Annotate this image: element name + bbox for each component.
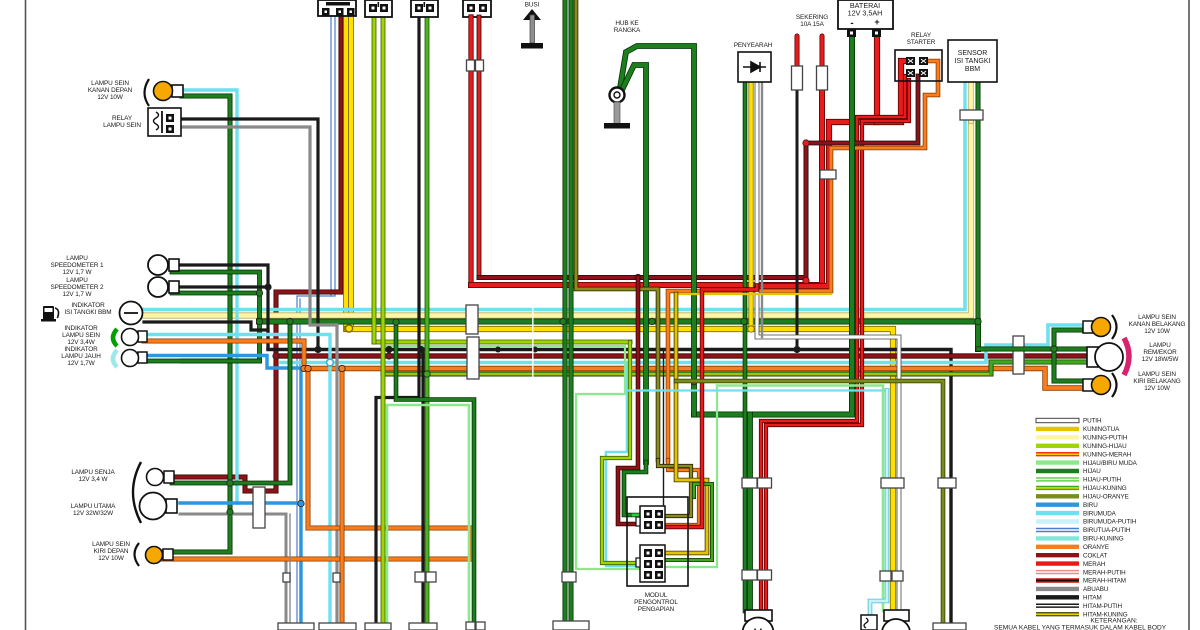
wire hijau long left pair A: [563, 0, 568, 621]
wire birumuda CDI wrap: [606, 363, 640, 567]
bulb lampu sein kanan belakang: [1083, 318, 1111, 337]
legend swatch hijau-kuning: [1036, 486, 1079, 490]
wire hijau baterai negatif: [694, 38, 852, 415]
wire coklat fuse junction to relay: [806, 76, 918, 143]
legend swatch merah-hitam: [1036, 578, 1079, 582]
inline connector abuabu b1: [283, 573, 290, 582]
junction hijau bus at senja: [287, 318, 293, 324]
wire merah relay starter to motor right: [766, 80, 909, 611]
inline connector kuning putih pair 2a: [880, 571, 891, 581]
bus birumuda lower: [281, 325, 1088, 363]
bus kuning-hijau lime: [374, 340, 630, 345]
bulb lampu senja: [147, 469, 175, 486]
legend swatch abuabu: [1036, 587, 1079, 591]
busi spark plug symbol: [521, 9, 543, 49]
junction coklat link: [386, 353, 392, 359]
svg-text:ABUABU: ABUABU: [1083, 586, 1109, 593]
wire hijau to starter motor: [747, 415, 753, 612]
wire oranye drop to bottom connector: [340, 368, 345, 624]
reflector lampu rem ekor: [1124, 338, 1129, 375]
junction biru utama: [298, 500, 304, 506]
bus merah-hitam coklat: [479, 145, 806, 278]
svg-text:HIJAU-PUTIH: HIJAU-PUTIH: [1083, 477, 1122, 484]
svg-text:MERAH-PUTIH: MERAH-PUTIH: [1083, 569, 1126, 576]
svg-text:HITAM: HITAM: [1083, 595, 1102, 602]
svg-text:HIJAU-KUNING: HIJAU-KUNING: [1083, 485, 1127, 492]
bus kuning main: [347, 329, 893, 611]
penyearah box with diode: [738, 52, 771, 82]
bus hijau-kuning yellow stripe: [383, 373, 989, 375]
ground ring terminal hub ke rangka: [604, 88, 630, 129]
fuse 1 body: [792, 66, 803, 90]
svg-text:PENYEARAH: PENYEARAH: [734, 42, 773, 49]
wire hijau sensor drop: [976, 82, 981, 322]
connector J4: [463, 0, 491, 17]
bottom connector right: [933, 623, 966, 630]
wire kuning penyearah drop: [748, 82, 753, 327]
fuel pump icon: [41, 306, 59, 322]
bottom connector P5 left: [466, 622, 475, 630]
baterai box: [838, 0, 893, 37]
wire biru-tua-putih from connector J1 right strand: [297, 16, 335, 624]
bulb lampu rem ekor: [1087, 343, 1123, 371]
svg-text:COKLAT: COKLAT: [1083, 552, 1107, 559]
svg-text:INDIKATORLAMPU SEIN12V 3,4W: INDIKATORLAMPU SEIN12V 3,4W: [62, 325, 100, 346]
wire birumuda indikator sein: [144, 335, 330, 625]
wire oranye CDI wrap right: [664, 460, 699, 525]
wire hitam-kuning from top: [576, 0, 658, 460]
reflector lampu sein kanan depan: [145, 79, 150, 106]
bus kuning-putih fuel sensor line: [143, 121, 971, 316]
svg-text:BBM: BBM: [965, 66, 980, 73]
legend swatch hitam: [1036, 595, 1079, 599]
wire kuningtua CDI lower right: [664, 294, 707, 553]
wire hijau lampu senja: [172, 322, 290, 484]
junction oranye sein kiri: [305, 365, 311, 371]
bus oranye main: [308, 369, 1084, 389]
wire kuning-hijau conn J2 right: [381, 17, 386, 624]
wire hijau-oranye horizontal: [676, 381, 943, 624]
svg-text:SEKERING10A 15A: SEKERING10A 15A: [796, 14, 828, 28]
wire hijau-putih CDI wrap: [576, 346, 640, 569]
bus hijau main: [259, 322, 978, 350]
inline connector on merah-hitam J4: [476, 60, 484, 71]
wire kuningtua horizontal: [676, 293, 831, 295]
wire abuabu lampu utama: [180, 514, 286, 624]
inline connector starter red: [758, 478, 772, 488]
wire hitam indikator bbm: [144, 322, 268, 348]
legend swatch kuning-merah: [1036, 452, 1079, 456]
wire biru-tua-putih from connector J1 left strand: [330, 16, 332, 296]
wire merah baterai positif: [762, 38, 877, 286]
junction hitam-coklat link top: [386, 346, 392, 352]
wire hijau CDI drop: [624, 462, 646, 515]
link hitam to coklat: [388, 348, 390, 356]
svg-text:MERAH: MERAH: [1083, 561, 1106, 568]
wire hitam speedometer 1: [172, 265, 268, 348]
inline connector on merah baterai: [820, 170, 836, 179]
bulb lampu speedometer 2: [148, 277, 179, 297]
svg-text:-: -: [850, 18, 853, 29]
svg-text:KUNING-PUTIH: KUNING-PUTIH: [1083, 435, 1128, 442]
wire abuabu relay drop: [289, 514, 291, 624]
wire putih penyearah drop: [757, 82, 899, 611]
junction hijau speedometer: [256, 290, 262, 296]
svg-text:HUB KERANGKA: HUB KERANGKA: [614, 20, 641, 34]
junction hijau utama: [227, 509, 233, 515]
page right border: [1188, 0, 1190, 630]
svg-text:SENSOR: SENSOR: [958, 50, 988, 57]
svg-text:BIRUMUDA-PUTIH: BIRUMUDA-PUTIH: [1083, 519, 1137, 526]
connector J1: [318, 0, 356, 16]
bulb indikator lampu sein: [122, 329, 148, 346]
svg-text:BIRU: BIRU: [1083, 502, 1098, 509]
legend swatch coklat: [1036, 553, 1079, 557]
junction oranye indikator: [301, 365, 307, 371]
wire oranye lampu sein kiri depan: [162, 369, 472, 560]
wire biru lampu utama: [180, 501, 301, 504]
inline connector rear lamps: [1013, 336, 1024, 374]
wire hijau-putih lower loop: [386, 405, 389, 624]
svg-text:ISI TANGKI: ISI TANGKI: [955, 58, 991, 65]
wire kuning-hijau CDI wrap: [602, 342, 640, 563]
legend swatch hijau-putih: [1036, 477, 1079, 481]
wire hijau rear branch down: [1054, 349, 1084, 381]
svg-text:HIJAU/BIRU MUDA: HIJAU/BIRU MUDA: [1083, 460, 1138, 467]
page left border: [25, 0, 27, 630]
wire biru-tua-putih parallel strand to bottom: [299, 299, 301, 624]
wire coklat from connector J1: [174, 16, 341, 491]
junction hijau bus mid 1: [393, 319, 399, 325]
wire hijau drop to bottom connector 5: [396, 322, 474, 623]
legend swatch hijau: [1036, 469, 1079, 473]
inline connector kuning putih pair 2b: [892, 571, 903, 581]
svg-text:KUNING-HIJAU: KUNING-HIJAU: [1083, 443, 1127, 450]
bus merah main: [471, 92, 822, 285]
junction hitam bus fuse: [794, 346, 800, 352]
legend swatch birutua-putih: [1036, 528, 1079, 532]
legend swatch birumuda: [1036, 511, 1079, 515]
alternator component: [882, 610, 910, 630]
junction hitam bus mid 2: [532, 347, 537, 352]
bus hijau-putih thin: [382, 345, 625, 347]
wire hijau penyearah drop: [743, 82, 748, 611]
reflector indikator lampu sein: [113, 329, 117, 346]
junction kuning-hijau J3 drop: [424, 371, 430, 377]
legend swatch biru: [1036, 503, 1079, 507]
junction hijau bus left: [256, 318, 262, 324]
wire hijau long left pair B: [569, 0, 574, 621]
wire merah baterai to relay pin: [877, 61, 907, 122]
inline connector bundle4 left: [415, 572, 425, 582]
connector J2: [365, 0, 392, 17]
wire hijau-putih CDI outer right: [664, 388, 717, 567]
svg-text:PUTIH: PUTIH: [1083, 418, 1102, 425]
wire hijau connector J3 drop: [425, 17, 430, 630]
junction kuning hex: [345, 325, 352, 332]
inline connector kuning putih pair: [881, 478, 904, 488]
wire hijau CDI stub bright: [632, 514, 646, 517]
junction merah fuse coklat: [803, 140, 809, 146]
sensor isi tangki bbm box: [948, 40, 997, 82]
bulb lampu speedometer 1: [148, 255, 179, 275]
legend swatch hitam-kuning: [1036, 612, 1079, 616]
wire hijau CDI lower right: [664, 484, 712, 560]
svg-text:BIRU-KUNING: BIRU-KUNING: [1083, 536, 1124, 543]
inline connector on merah J4: [467, 60, 475, 71]
ignition coil box: [861, 615, 877, 630]
wire hijau speedometer 1: [172, 272, 260, 361]
wire coklat CDI drop: [618, 278, 640, 525]
fuse 2 body: [817, 66, 828, 90]
svg-text:KETERANGAN:: KETERANGAN:: [1090, 618, 1137, 625]
junction hitam bus relay: [315, 346, 321, 352]
junction hitam bus mid 1: [495, 347, 500, 352]
wire birumuda sensor drop: [963, 82, 966, 121]
wire hijau-putih right horizontal: [717, 386, 883, 612]
legend swatch kuningtua: [1036, 427, 1079, 431]
junction coklat bus left end: [273, 353, 279, 359]
connector J3: [411, 0, 438, 17]
junction hijau bus mid 3: [649, 318, 655, 324]
svg-text:KUNING-MERAH: KUNING-MERAH: [1083, 451, 1132, 458]
legend swatch kuning-hijau: [1036, 444, 1079, 448]
legend swatch hijau-oranye: [1036, 494, 1079, 498]
wire kuning from connector J1 right: [348, 16, 354, 327]
inline connector hitam hijau pair: [938, 478, 956, 488]
svg-text:HITAM-PUTIH: HITAM-PUTIH: [1083, 603, 1123, 610]
reflector lampu senja + lampu utama: [133, 462, 141, 523]
junction hijau bus mid 4: [741, 318, 747, 324]
bus hijau-kuning: [383, 362, 1096, 374]
inline connector starter red 2: [758, 570, 772, 580]
bottom connector hijau pair: [553, 621, 589, 630]
svg-text:KUNINGTUA: KUNINGTUA: [1083, 426, 1120, 433]
junction hijau senja: [227, 480, 233, 486]
wire merah-hitam connector J4: [477, 17, 482, 278]
legend swatch biru-kuning: [1036, 536, 1079, 540]
bus coklat main: [276, 353, 1096, 358]
wire kuning from connector J1 left: [343, 16, 349, 329]
bus birumuda fuel sensor line: [143, 121, 965, 310]
wire biru indikator jauh: [144, 356, 301, 625]
legend swatch birumuda-putih: [1036, 519, 1079, 523]
svg-text:ORANYE: ORANYE: [1083, 544, 1109, 551]
wire hijau rear to brake lamp: [1054, 347, 1091, 352]
inline connector sensor wires: [960, 110, 983, 120]
junction kuning penyearah open: [748, 326, 754, 332]
bulb lampu sein kanan depan: [154, 82, 184, 101]
reflector lampu sein kiri belakang: [1112, 373, 1117, 397]
wire merah CDI branch: [665, 286, 757, 528]
inline connector hijau pair: [562, 572, 576, 582]
wire hijau indikator jauh: [144, 359, 260, 364]
wire hitam connector J3 drop: [376, 17, 419, 624]
junction hijau bus mid 2: [560, 318, 566, 324]
wire merah connector J4: [468, 17, 473, 285]
wire hitam thin to CDI: [663, 350, 665, 519]
junction merah coklat lower: [803, 277, 809, 283]
reflector lampu sein kanan belakang: [1112, 315, 1117, 339]
bottom connector P5 right: [476, 622, 485, 630]
svg-text:BIRUTUA-PUTIH: BIRUTUA-PUTIH: [1083, 527, 1131, 534]
wire hitam-kuning CDI wrap right: [658, 460, 691, 516]
scan artifact band left: [532, 296, 534, 380]
junction coklat bus CDI drop: [635, 274, 641, 280]
bus hitam main: [268, 350, 951, 625]
inline connector bus upper: [466, 305, 478, 334]
svg-text:HIJAU: HIJAU: [1083, 468, 1101, 475]
bottom connector P4: [409, 623, 437, 630]
svg-text:+: +: [874, 17, 879, 27]
reflector lampu sein kiri depan: [135, 543, 140, 566]
svg-text:INDIKATORISI TANGKI BBM: INDIKATORISI TANGKI BBM: [64, 302, 111, 316]
reflector indikator lampu jauh: [113, 350, 117, 367]
wire merah fuse 1 top: [795, 36, 800, 67]
wire abuabu penyearah drop: [761, 82, 763, 337]
junction birumuda open: [327, 359, 334, 366]
wire birumuda-putih right drop: [870, 391, 887, 616]
bulb indikator lampu jauh: [122, 350, 148, 367]
inline connector abuabu b2: [333, 573, 340, 582]
wire abuabu relay lampu sein: [180, 127, 337, 624]
junction hijau rear: [1051, 346, 1057, 352]
wire hijau-putih lower loop right: [387, 405, 469, 623]
wire merah relay starter to motor left: [761, 76, 905, 611]
wire hitam bus drop: [421, 349, 424, 624]
bottom connector P3: [365, 623, 391, 630]
junction hijau bus right end: [975, 318, 981, 324]
bulb lampu utama: [140, 493, 178, 520]
modul pengontrol pengapian box: [627, 497, 688, 586]
bulb lampu sein kiri depan: [146, 547, 174, 564]
wire hitam fuse 1 bottom: [796, 89, 799, 349]
wire oranye relay starter wrap: [668, 61, 938, 460]
wire merah fuse 2 top: [820, 36, 825, 67]
legend swatch merah: [1036, 561, 1079, 565]
legend swatch merah-putih: [1036, 570, 1079, 574]
motor starter M: [743, 610, 774, 630]
wire hijau speedometer 2: [172, 291, 260, 296]
bottom connector P2: [319, 623, 356, 630]
bottom connector P1: [278, 623, 314, 630]
legend swatch oranye: [1036, 545, 1079, 549]
svg-text:HIJAU-ORANYE: HIJAU-ORANYE: [1083, 494, 1129, 501]
wire kuning-hijau conn J2 left: [372, 17, 377, 342]
junction hitam bus J3: [418, 346, 424, 352]
meter indikator isi tangki bbm: [120, 302, 143, 325]
junction oranye drop: [339, 365, 345, 371]
wire hitam speedometer 2: [172, 285, 268, 288]
wire hijau lampu sein kanan depan: [162, 96, 230, 552]
inline connector bundle4 right: [426, 572, 436, 582]
svg-text:MERAH-HITAM: MERAH-HITAM: [1083, 578, 1126, 585]
legend swatch putih: [1036, 418, 1079, 422]
junction hijau hub wire: [691, 379, 697, 385]
relay starter box: [895, 50, 942, 81]
svg-text:LAMPU UTAMA12V 32W/32W: LAMPU UTAMA12V 32W/32W: [71, 503, 116, 517]
legend swatch hitam-putih: [1036, 604, 1079, 608]
svg-text:SEMUA KABEL YANG TERMASUK DALA: SEMUA KABEL YANG TERMASUK DALAM KABEL BO…: [994, 625, 1167, 630]
junction hitam speedometer: [265, 284, 271, 290]
wire birumuda lampu sein kanan depan: [182, 90, 237, 503]
wire hitam relay lampu sein: [180, 119, 318, 348]
inline connector starter green: [742, 478, 757, 488]
junction merah bus: [754, 282, 760, 288]
wire birumuda branch across: [627, 389, 887, 391]
wire oranye indikator sein: [144, 341, 304, 368]
wire hijau hub ke rangka outer: [620, 46, 694, 415]
relay lampu sein box: [148, 108, 181, 136]
svg-text:BIRUMUDA: BIRUMUDA: [1083, 510, 1117, 517]
inline connector starter green 2: [742, 570, 757, 580]
svg-text:BUSI: BUSI: [525, 2, 540, 9]
inline connector headlamp harness: [253, 487, 265, 528]
bulb lampu sein kiri belakang: [1083, 376, 1111, 395]
legend swatch kuning-putih: [1036, 435, 1079, 439]
legend swatch hijau/biru muda: [1036, 460, 1079, 464]
wire hijau hub ke rangka inner: [621, 65, 646, 462]
inline connector bus lower: [467, 337, 479, 379]
wire hijau rear branch: [978, 330, 1088, 349]
wire kuning-putih sensor drop: [968, 82, 973, 121]
